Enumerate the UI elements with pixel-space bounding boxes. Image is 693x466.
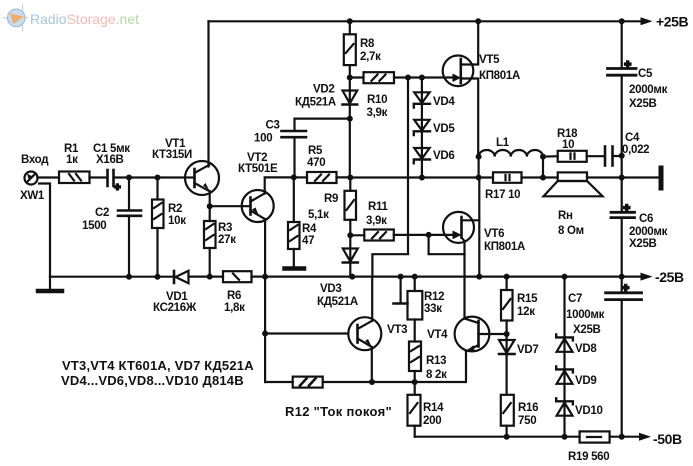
- svg-text:3,9к: 3,9к: [366, 215, 387, 227]
- svg-text:R6: R6: [227, 290, 241, 302]
- svg-text:L1: L1: [496, 137, 510, 149]
- svg-text:C5: C5: [638, 68, 653, 80]
- svg-text:+: +: [623, 283, 629, 295]
- svg-text:2000мк: 2000мк: [629, 226, 668, 238]
- zener VD10: [556, 398, 573, 415]
- svg-text:2,7к: 2,7к: [360, 51, 381, 63]
- resistor R5: [294, 172, 351, 183]
- wire speaker to ground: [587, 176, 660, 178]
- diode VD2: [343, 78, 358, 119]
- svg-text:C3: C3: [266, 120, 280, 132]
- node R2 top junction: [155, 175, 161, 181]
- diode VD7: [499, 334, 515, 395]
- node top rail VT5 junction: [475, 18, 481, 24]
- resistor R4: [288, 177, 300, 266]
- resistor R1: [59, 172, 90, 184]
- wire VT1 collector vertical: [207, 21, 209, 166]
- svg-text:+25В: +25В: [656, 14, 689, 30]
- resistor R10: [364, 72, 395, 83]
- node C4 column: [619, 153, 625, 159]
- svg-text:R3: R3: [218, 222, 232, 234]
- capacitor C2: [118, 178, 141, 277]
- svg-text:VD4...VD6,VD8...VD10 Д814В: VD4...VD6,VD8...VD10 Д814В: [61, 373, 244, 388]
- resistor R3: [204, 206, 216, 276]
- capacitor C3: [282, 119, 350, 178]
- svg-text:R16: R16: [518, 402, 538, 414]
- speaker Rn: [544, 172, 603, 196]
- node VT1 emitter junction: [207, 203, 213, 209]
- diode VD3: [343, 235, 358, 276]
- svg-text:КТ501Е: КТ501Е: [238, 163, 278, 175]
- zener VD5: [414, 120, 430, 148]
- svg-text:470: 470: [307, 157, 325, 169]
- svg-text:3,9к: 3,9к: [367, 107, 388, 119]
- wire bottom -50V rail: [415, 436, 580, 438]
- ground left: [38, 277, 62, 291]
- node rail VD3: [349, 274, 355, 280]
- svg-text:R9: R9: [324, 193, 338, 205]
- wire VT1 emitter to VT2 base: [210, 205, 251, 207]
- svg-text:-25В: -25В: [655, 269, 684, 285]
- logo RadioStorage: [3, 4, 140, 32]
- node R13 R14 junction: [412, 379, 418, 385]
- wire VD2 bottom to R5 junction: [349, 119, 351, 178]
- ground output terminal: [659, 168, 664, 188]
- capacitor C5: [608, 21, 637, 156]
- svg-text:R14: R14: [423, 402, 444, 414]
- node rail R12 wiper: [398, 274, 404, 280]
- svg-text:VT4: VT4: [427, 329, 448, 341]
- svg-text:1к: 1к: [66, 154, 78, 166]
- node bottom rail C7: [619, 434, 625, 440]
- svg-text:2000мк: 2000мк: [629, 84, 668, 96]
- svg-text:R10: R10: [367, 94, 387, 106]
- resistor R6: [223, 271, 252, 282]
- resistor R19: [580, 431, 640, 442]
- capacitor C6: [611, 156, 635, 277]
- svg-text:VT5: VT5: [479, 54, 500, 66]
- wire R10 vertical staircase to rail: [372, 78, 408, 277]
- svg-text:C6: C6: [639, 213, 653, 225]
- zener VD8: [556, 277, 573, 437]
- transistor VT2: [242, 177, 294, 276]
- svg-text:100: 100: [254, 133, 272, 145]
- svg-text:10к: 10к: [168, 215, 186, 227]
- node R5 R9 junction: [347, 175, 353, 181]
- svg-text:VD6: VD6: [433, 150, 454, 162]
- node VD2 bottom C3: [347, 116, 353, 122]
- zener VD4: [414, 78, 430, 120]
- svg-text:R13: R13: [426, 355, 446, 367]
- resistor R8: [344, 21, 356, 77]
- svg-text:47: 47: [302, 235, 314, 247]
- resistor R18: [543, 151, 604, 162]
- wire -50V arrow: [639, 433, 651, 441]
- svg-text:VD9: VD9: [575, 375, 596, 387]
- svg-text:VD10: VD10: [575, 405, 603, 417]
- svg-text:X25В: X25В: [629, 98, 657, 110]
- node rail VT6 source: [476, 274, 482, 280]
- node output C5 C6 column: [619, 175, 625, 181]
- node bottom rail R16: [504, 434, 510, 440]
- capacitor C7: [606, 277, 642, 437]
- svg-text:КП801А: КП801А: [479, 70, 520, 82]
- node rail R2: [155, 274, 161, 280]
- svg-text:10: 10: [562, 139, 574, 151]
- resistor R13: [409, 342, 421, 383]
- svg-text:750: 750: [518, 415, 536, 427]
- svg-text:1000мк: 1000мк: [566, 309, 605, 321]
- svg-text:RadioStorage.net: RadioStorage.net: [30, 11, 139, 27]
- node VT3 base junction: [262, 331, 268, 337]
- node top rail R8 junction: [347, 18, 353, 24]
- wire C1 to VT1 base: [115, 176, 186, 178]
- transistor VT5: [443, 21, 479, 156]
- svg-text:+: +: [625, 59, 631, 71]
- svg-text:X25В: X25В: [573, 324, 601, 336]
- diode VD1: [174, 271, 189, 283]
- inductor L1: [479, 150, 543, 157]
- node rail VD8: [562, 274, 568, 280]
- wire input line: [38, 176, 60, 178]
- svg-text:XW1: XW1: [20, 190, 45, 202]
- wire R7 to VT4 emitter: [323, 352, 466, 383]
- svg-text:27к: 27к: [218, 234, 236, 246]
- svg-text:X16В: X16В: [96, 154, 124, 166]
- transistor VT4: [455, 317, 507, 352]
- node output VT6 drain: [476, 175, 482, 181]
- svg-text:Rн: Rн: [558, 210, 573, 222]
- node R10 right: [405, 75, 411, 81]
- node VD4 top: [419, 75, 425, 81]
- node rail R12 top: [412, 274, 418, 280]
- svg-text:КП801А: КП801А: [484, 241, 525, 253]
- wire -25V rail left: [50, 276, 174, 278]
- svg-text:КТ315И: КТ315И: [152, 149, 192, 161]
- zener VD6: [414, 148, 430, 178]
- svg-text:VD3: VD3: [320, 283, 341, 295]
- resistor R16: [501, 395, 514, 437]
- transistor VT1: [185, 161, 219, 206]
- node L1 left top: [476, 154, 482, 160]
- node top rail C5 junction: [619, 18, 625, 24]
- resistor R11: [350, 230, 428, 241]
- resistor R2: [152, 178, 164, 277]
- svg-text:C2: C2: [95, 207, 109, 219]
- svg-text:VT3: VT3: [387, 324, 407, 336]
- svg-text:VT3,VT4 КТ601А, VD7 КД521А: VT3,VT4 КТ601А, VD7 КД521А: [62, 358, 254, 373]
- node L1 right bottom: [540, 175, 546, 181]
- wire -25V rail right: [252, 276, 642, 278]
- svg-text:8 Ом: 8 Ом: [558, 225, 584, 237]
- svg-text:0,022: 0,022: [622, 144, 649, 156]
- resistor R17: [479, 172, 558, 183]
- wire VT6 gate arrow: [453, 231, 462, 239]
- wire output line mid: [350, 176, 478, 178]
- node VT4 base R15 VD7: [504, 331, 510, 337]
- wire R7 left lead: [265, 381, 293, 383]
- svg-text:R8: R8: [360, 38, 375, 50]
- wire R1 to C1: [90, 176, 107, 178]
- svg-text:VD8: VD8: [575, 343, 597, 355]
- node rail R3: [207, 274, 213, 280]
- node rail C2: [126, 274, 132, 280]
- resistor R7: [293, 377, 323, 388]
- svg-text:200: 200: [423, 415, 441, 427]
- wire L1 right vertical: [542, 157, 544, 178]
- svg-text:VD2: VD2: [313, 84, 334, 96]
- node C2 top junction: [126, 175, 132, 181]
- wire VT5 source to output: [478, 157, 480, 178]
- svg-text:Вход: Вход: [21, 154, 49, 166]
- capacitor C4: [605, 147, 622, 166]
- zener VD9: [556, 366, 573, 383]
- svg-text:КД521А: КД521А: [317, 296, 358, 308]
- node rail VT2 emitter: [262, 274, 268, 280]
- svg-text:R11: R11: [368, 201, 388, 213]
- svg-text:VT6: VT6: [484, 228, 504, 240]
- svg-text:VD7: VD7: [517, 344, 538, 356]
- svg-text:+: +: [624, 203, 630, 215]
- svg-text:-50В: -50В: [653, 431, 682, 447]
- ground R4: [285, 266, 305, 271]
- node L1 right top: [540, 154, 546, 160]
- wire gate down path: [429, 235, 465, 254]
- svg-text:+: +: [115, 183, 121, 194]
- svg-text:C4: C4: [625, 132, 640, 144]
- svg-text:X25В: X25В: [629, 238, 657, 250]
- svg-text:8 2к: 8 2к: [426, 369, 447, 381]
- resistor R14: [408, 382, 421, 437]
- wire VT3 base: [265, 332, 348, 334]
- node rail R15: [504, 274, 510, 280]
- svg-text:R4: R4: [302, 223, 317, 235]
- svg-text:R5: R5: [308, 145, 323, 157]
- wire gate line VT5: [350, 76, 364, 78]
- node R8 bottom: [347, 75, 353, 81]
- svg-text:R12: R12: [424, 291, 444, 303]
- svg-text:5,1к: 5,1к: [308, 209, 329, 221]
- svg-text:R12 "Ток покоя": R12 "Ток покоя": [285, 404, 392, 419]
- svg-text:C7: C7: [568, 293, 582, 305]
- node bottom rail VD10: [562, 434, 568, 440]
- svg-text:R17 10: R17 10: [485, 189, 520, 201]
- svg-text:R2: R2: [168, 203, 182, 215]
- node R9 R11 junction: [347, 232, 353, 238]
- svg-text:1500: 1500: [82, 220, 106, 232]
- svg-text:КД521А: КД521А: [295, 97, 336, 109]
- node R7 VT3 emitter: [369, 379, 375, 385]
- node VD6 bottom output: [419, 175, 425, 181]
- svg-text:33к: 33к: [424, 303, 442, 315]
- wire top +25V rail: [209, 20, 641, 22]
- svg-text:VD5: VD5: [433, 123, 455, 135]
- node VT2 collector R4 C3 junction: [291, 174, 297, 180]
- node rail C6 C7: [619, 274, 625, 280]
- resistor R9: [345, 178, 357, 236]
- wire rail VD1 to R6: [189, 276, 224, 278]
- svg-text:КС216Ж: КС216Ж: [153, 302, 197, 314]
- resistor R15: [501, 277, 513, 334]
- connector XW1: [25, 172, 51, 277]
- potentiometer R12: [394, 277, 423, 342]
- svg-text:VD4: VD4: [433, 96, 455, 108]
- node VT6 gate junction: [426, 232, 432, 238]
- svg-text:R15: R15: [517, 293, 538, 305]
- transistor VT3: [348, 277, 381, 382]
- svg-text:R19 560: R19 560: [568, 451, 609, 463]
- wire +25V arrow: [641, 17, 653, 25]
- wire -25V arrow: [641, 273, 653, 281]
- capacitor C1: [108, 170, 121, 194]
- wire VT2 emitter column below rail: [264, 277, 266, 382]
- wire VT6 source to VT4 collector: [463, 254, 465, 318]
- svg-text:12к: 12к: [517, 306, 535, 318]
- svg-text:1,8к: 1,8к: [224, 302, 245, 314]
- transistor VT6: [443, 178, 479, 277]
